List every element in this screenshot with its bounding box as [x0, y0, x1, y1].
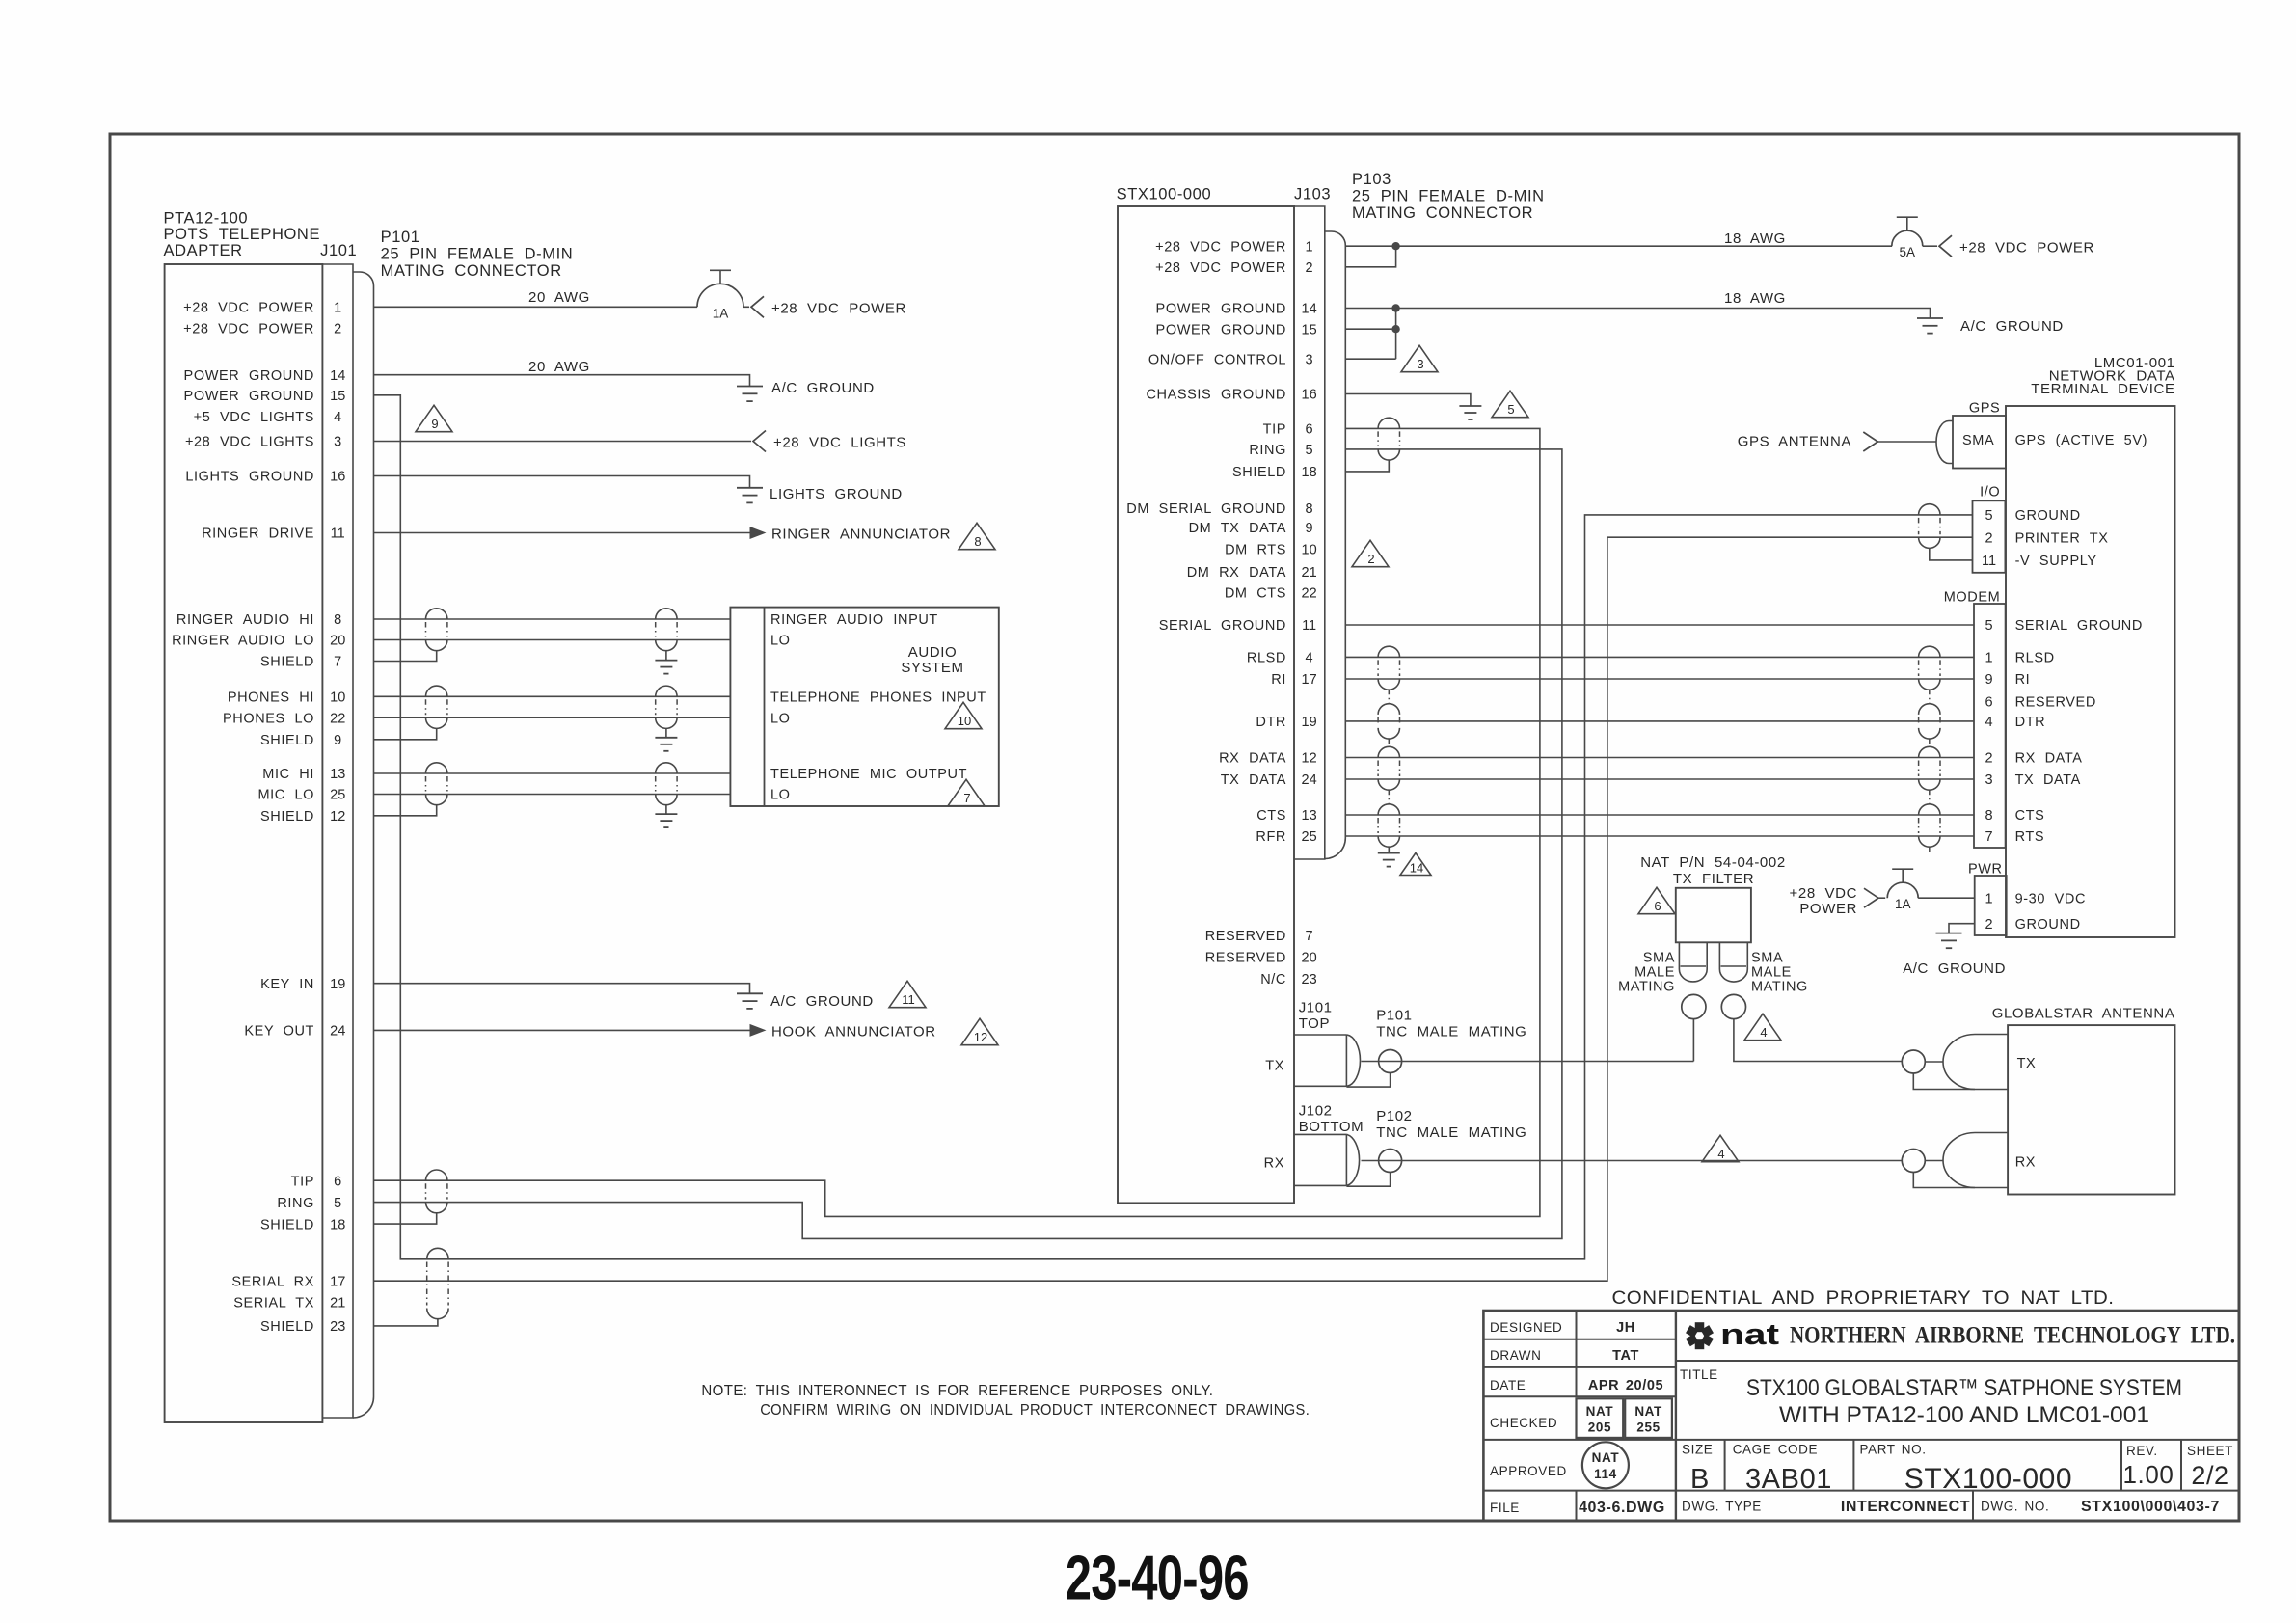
- svg-text:3: 3: [1417, 357, 1423, 371]
- flag note 7: [948, 779, 985, 805]
- wire J103-1 +28VDC: [1345, 245, 1892, 247]
- svg-text:MALE: MALE: [1751, 965, 1792, 981]
- flag note 3: [1401, 345, 1438, 371]
- svg-text:18 AWG: 18 AWG: [1724, 290, 1786, 307]
- svg-text:GPS: GPS: [1969, 401, 2000, 417]
- STX100-000 device box: [1118, 206, 1294, 1203]
- svg-text:7: 7: [963, 791, 970, 805]
- svg-text:SHIELD: SHIELD: [260, 809, 314, 825]
- shield oval (serial pair): [427, 1248, 448, 1258]
- svg-text:17: 17: [330, 1274, 345, 1289]
- svg-text:11: 11: [1982, 554, 1996, 569]
- svg-text:23-40-96: 23-40-96: [1066, 1543, 1249, 1613]
- svg-text:SHIELD: SHIELD: [1232, 465, 1286, 480]
- svg-text:+28 VDC LIGHTS: +28 VDC LIGHTS: [773, 435, 906, 451]
- svg-text:DM CTS: DM CTS: [1225, 586, 1286, 602]
- wire net TIP (J101-6 to J103-6): [374, 428, 1540, 1216]
- flag note 6: [1638, 887, 1675, 913]
- svg-text:5: 5: [1507, 402, 1514, 417]
- circuit breaker 1A (PWR): [1887, 882, 1918, 898]
- mating connector P101 backshell: [353, 272, 374, 1418]
- svg-text:13: 13: [330, 767, 345, 782]
- svg-text:STX100-000: STX100-000: [1117, 186, 1212, 203]
- svg-text:22: 22: [330, 711, 345, 726]
- wire J103-16 chassis ground: [1345, 394, 1471, 407]
- flag note 4 (upper): [1744, 1014, 1781, 1040]
- svg-text:10: 10: [1302, 543, 1317, 558]
- svg-text:2: 2: [334, 322, 341, 338]
- junction dot pin1: [1391, 242, 1399, 250]
- svg-text:LO: LO: [770, 634, 791, 649]
- svg-text:CTS: CTS: [2015, 808, 2045, 824]
- svg-text:POTS TELEPHONE: POTS TELEPHONE: [164, 226, 321, 243]
- svg-text:MODEM: MODEM: [1944, 590, 2001, 606]
- svg-text:RFR: RFR: [1256, 829, 1286, 845]
- TNC circle antenna TX: [1902, 1050, 1925, 1073]
- svg-text:POWER GROUND: POWER GROUND: [184, 368, 314, 384]
- svg-text:11: 11: [1302, 618, 1316, 634]
- svg-text:GPS ANTENNA: GPS ANTENNA: [1738, 434, 1851, 450]
- svg-text:11: 11: [902, 992, 915, 1007]
- svg-text:4: 4: [1306, 651, 1313, 666]
- wire net RING (J101-5 to J103-5): [374, 449, 1562, 1239]
- svg-text:10: 10: [330, 690, 345, 706]
- svg-text:4: 4: [1760, 1025, 1767, 1040]
- svg-text:RINGER AUDIO INPUT: RINGER AUDIO INPUT: [770, 612, 938, 628]
- svg-text:CHECKED: CHECKED: [1490, 1416, 1557, 1430]
- svg-text:5: 5: [334, 1196, 341, 1211]
- wire J101-11 ringer drive: [374, 532, 750, 534]
- svg-text:9: 9: [431, 417, 438, 431]
- shield pair oval (mic, audio side): [656, 763, 677, 773]
- shield drain to ground (mic): [665, 805, 667, 814]
- AUDIO SYSTEM box: [730, 608, 998, 806]
- svg-text:4: 4: [1985, 715, 1992, 730]
- supply chevron +28 VDC POWER (right): [1939, 235, 1952, 257]
- svg-text:BOTTOM: BOTTOM: [1299, 1119, 1364, 1135]
- TX filter left SMA leg: [1678, 942, 1680, 969]
- svg-text:MATING: MATING: [1751, 980, 1808, 995]
- wire J103-24 TX data to modem 3: [1345, 778, 1974, 780]
- svg-text:TELEPHONE PHONES INPUT: TELEPHONE PHONES INPUT: [770, 690, 986, 706]
- wire J101-23 shield stub: [374, 1319, 438, 1326]
- wire J103-4 RLSD to modem 1: [1345, 656, 1974, 658]
- svg-text:DATE: DATE: [1490, 1378, 1526, 1393]
- shield drain to ground (ringer): [665, 651, 667, 661]
- svg-text:PHONES HI: PHONES HI: [228, 690, 314, 706]
- mating connector P103 backshell: [1325, 231, 1346, 859]
- svg-text:GPS (ACTIVE 5V): GPS (ACTIVE 5V): [2015, 433, 2147, 448]
- wire J101-13 mic hi: [374, 772, 731, 774]
- svg-text:A/C GROUND: A/C GROUND: [1903, 960, 2006, 977]
- svg-text:9: 9: [1985, 672, 1992, 688]
- shield drain to -V supply pin: [1930, 548, 1973, 560]
- wire J101-8 ringer audio hi: [374, 618, 731, 620]
- wire J101-15 power ground to I/O ground net: [374, 395, 1973, 1259]
- svg-text:DM RX DATA: DM RX DATA: [1187, 565, 1286, 581]
- wire J101-24 key out: [374, 1029, 750, 1031]
- shield oval I/O pair: [1919, 504, 1940, 515]
- TX filter right SMA leg: [1718, 942, 1720, 969]
- svg-text:4: 4: [334, 410, 341, 425]
- wire J103-18 shield stub: [1345, 460, 1390, 472]
- svg-text:AUDIO: AUDIO: [908, 644, 958, 661]
- svg-text:TNC MALE MATING: TNC MALE MATING: [1376, 1124, 1526, 1141]
- svg-text:14: 14: [1410, 860, 1423, 875]
- svg-text:6: 6: [1306, 422, 1313, 438]
- svg-text:24: 24: [330, 1024, 345, 1040]
- wire filter left leg to TX coax: [1692, 1019, 1694, 1062]
- svg-text:1: 1: [1985, 651, 1992, 666]
- svg-text:SHIELD: SHIELD: [260, 1217, 314, 1232]
- svg-text:TX: TX: [2017, 1056, 2037, 1071]
- svg-text:14: 14: [330, 368, 345, 384]
- svg-text:REV.: REV.: [2126, 1444, 2158, 1458]
- TNC circle P102: [1379, 1150, 1402, 1173]
- svg-text:RINGER DRIVE: RINGER DRIVE: [202, 527, 314, 542]
- svg-text:25 PIN FEMALE D-MIN: 25 PIN FEMALE D-MIN: [381, 246, 574, 263]
- svg-text:I/O: I/O: [1980, 485, 2000, 500]
- svg-text:+28 VDC POWER: +28 VDC POWER: [1959, 239, 2094, 256]
- svg-text:RINGER AUDIO LO: RINGER AUDIO LO: [172, 634, 314, 649]
- wire J101-10 phones hi: [374, 695, 731, 697]
- svg-text:14: 14: [1302, 302, 1317, 317]
- wire J103-11 serial ground to modem 5: [1345, 624, 1974, 626]
- svg-text:12: 12: [330, 809, 345, 825]
- svg-text:25: 25: [330, 788, 345, 803]
- svg-text:3: 3: [334, 435, 341, 450]
- ground A/C (J103 power ground): [1917, 317, 1943, 319]
- svg-text:+28 VDC POWER: +28 VDC POWER: [183, 301, 314, 316]
- svg-text:RINGER ANNUNCIATOR: RINGER ANNUNCIATOR: [771, 527, 951, 543]
- svg-text:TELEPHONE MIC OUTPUT: TELEPHONE MIC OUTPUT: [770, 767, 967, 782]
- svg-text:1A: 1A: [713, 306, 729, 320]
- junction dot pin14: [1391, 304, 1399, 311]
- wire J103-2 +28VDC joins pin1: [1345, 246, 1396, 267]
- wire J101-19 key in to ground: [374, 984, 750, 994]
- svg-text:CONFIRM WIRING ON INDIVIDUAL P: CONFIRM WIRING ON INDIVIDUAL PRODUCT INT…: [760, 1402, 1310, 1419]
- svg-text:+28 VDC LIGHTS: +28 VDC LIGHTS: [185, 435, 314, 450]
- svg-text:TAT: TAT: [1612, 1348, 1639, 1364]
- svg-text:JH: JH: [1616, 1320, 1635, 1336]
- svg-text:P103: P103: [1352, 171, 1391, 188]
- svg-text:POWER GROUND: POWER GROUND: [1156, 302, 1286, 317]
- wire J103-25 RFR to modem 7: [1345, 835, 1974, 837]
- SMA male mating circle left: [1682, 994, 1706, 1018]
- svg-text:TX DATA: TX DATA: [2015, 772, 2081, 788]
- svg-text:LIGHTS GROUND: LIGHTS GROUND: [185, 470, 314, 485]
- svg-text:19: 19: [330, 977, 345, 992]
- svg-text:APPROVED: APPROVED: [1490, 1464, 1567, 1478]
- svg-text:MALE: MALE: [1634, 965, 1675, 981]
- svg-text:CAGE CODE: CAGE CODE: [1733, 1443, 1818, 1457]
- svg-text:7: 7: [1985, 829, 1992, 845]
- svg-text:1: 1: [1985, 891, 1992, 906]
- svg-text:20: 20: [330, 634, 345, 649]
- NAT logo: [1695, 1322, 1705, 1332]
- annunciator arrow ringer: [750, 527, 767, 539]
- drawing border frame: [110, 134, 2239, 1521]
- svg-text:24: 24: [1302, 772, 1317, 788]
- wire J103-12 RX data to modem 2: [1345, 757, 1974, 759]
- svg-text:5: 5: [1306, 443, 1313, 458]
- TNC circle antenna RX: [1902, 1150, 1925, 1173]
- ground chassis (J103-16): [1459, 405, 1481, 407]
- svg-text:HOOK ANNUNCIATOR: HOOK ANNUNCIATOR: [771, 1024, 936, 1041]
- svg-text:CONFIDENTIAL AND PROPRIETARY T: CONFIDENTIAL AND PROPRIETARY TO NAT LTD.: [1612, 1287, 2115, 1309]
- svg-text:NAT: NAT: [1592, 1450, 1620, 1465]
- wire J103-13 CTS to modem 8: [1345, 814, 1974, 816]
- svg-text:2: 2: [1985, 751, 1992, 767]
- svg-text:nat: nat: [1720, 1317, 1779, 1351]
- svg-text:TX DATA: TX DATA: [1221, 772, 1286, 788]
- svg-text:PRINTER TX: PRINTER TX: [2015, 530, 2109, 546]
- svg-text:8: 8: [1306, 501, 1313, 517]
- svg-text:PTA12-100: PTA12-100: [164, 209, 249, 227]
- svg-text:25 PIN FEMALE D-MIN: 25 PIN FEMALE D-MIN: [1352, 188, 1545, 205]
- svg-text:TOP: TOP: [1299, 1015, 1330, 1032]
- svg-text:POWER GROUND: POWER GROUND: [1156, 322, 1286, 338]
- flag note 11: [889, 981, 926, 1007]
- svg-text:17: 17: [1302, 672, 1317, 688]
- svg-text:12: 12: [1302, 751, 1317, 767]
- svg-text:FILE: FILE: [1490, 1501, 1520, 1515]
- svg-text:GLOBALSTAR ANTENNA: GLOBALSTAR ANTENNA: [1992, 1006, 2175, 1022]
- flag note 9: [416, 405, 452, 431]
- svg-text:3: 3: [1306, 352, 1313, 367]
- svg-text:+28 VDC POWER: +28 VDC POWER: [183, 322, 314, 338]
- svg-text:6: 6: [1654, 899, 1661, 913]
- svg-text:SYSTEM: SYSTEM: [901, 660, 963, 676]
- svg-text:CTS: CTS: [1256, 808, 1286, 824]
- svg-text:MIC HI: MIC HI: [262, 767, 314, 782]
- svg-text:DM SERIAL GROUND: DM SERIAL GROUND: [1126, 501, 1286, 517]
- shield pair oval (ringer, audio side): [656, 609, 677, 619]
- svg-text:RX DATA: RX DATA: [1219, 751, 1286, 767]
- wire J101-18 shield stub: [374, 1213, 437, 1224]
- svg-text:13: 13: [1302, 808, 1317, 824]
- svg-text:DWG. NO.: DWG. NO.: [1981, 1500, 2049, 1514]
- svg-text:8: 8: [1985, 808, 1992, 824]
- svg-text:STX100 GLOBALSTAR™ SATPHONE SY: STX100 GLOBALSTAR™ SATPHONE SYSTEM: [1746, 1375, 2182, 1401]
- svg-text:DRAWN: DRAWN: [1490, 1348, 1542, 1363]
- svg-text:25: 25: [1302, 829, 1317, 845]
- svg-text:+5 VDC LIGHTS: +5 VDC LIGHTS: [194, 410, 314, 425]
- shield pair oval (tip/ring J101 side): [426, 1170, 447, 1180]
- svg-text:SERIAL GROUND: SERIAL GROUND: [1159, 618, 1286, 634]
- svg-text:1A: 1A: [1895, 897, 1911, 911]
- svg-text:LO: LO: [770, 788, 791, 803]
- wire J101-9 shield stub: [374, 728, 437, 739]
- stamp NAT 205: [1577, 1398, 1624, 1438]
- svg-text:ON/OFF CONTROL: ON/OFF CONTROL: [1148, 352, 1286, 367]
- wire J101-7 shield stub: [374, 651, 437, 662]
- shield drain ground (serial cable): [1388, 847, 1390, 852]
- svg-text:RX DATA: RX DATA: [2015, 751, 2083, 767]
- svg-text:RX: RX: [1264, 1156, 1284, 1172]
- globalstar antenna box: [2008, 1025, 2174, 1194]
- coax TX to filter left leg: [1362, 1061, 1694, 1063]
- svg-text:PART NO.: PART NO.: [1860, 1443, 1927, 1457]
- svg-text:RING: RING: [1249, 443, 1286, 458]
- svg-text:114: 114: [1594, 1467, 1617, 1481]
- flag note 12: [961, 1018, 998, 1044]
- svg-text:RI: RI: [1271, 672, 1286, 688]
- coax RX to globalstar: [1362, 1160, 1903, 1162]
- svg-text:205: 205: [1588, 1420, 1611, 1435]
- flag note 2: [1352, 540, 1389, 566]
- wire PWR-2 ground: [1949, 924, 1975, 933]
- ground A/C (power ground): [737, 386, 763, 388]
- svg-text:2: 2: [1985, 530, 1992, 546]
- svg-text:SHIELD: SHIELD: [260, 655, 314, 670]
- svg-text:7: 7: [334, 655, 341, 670]
- svg-text:TERMINAL DEVICE: TERMINAL DEVICE: [2031, 381, 2174, 397]
- wire J101-14 power ground: [374, 375, 750, 387]
- wire net SERIAL RX (J101-17 to I/O printer TX): [374, 537, 1973, 1281]
- svg-text:8: 8: [334, 612, 341, 628]
- svg-text:NAT P/N 54-04-002: NAT P/N 54-04-002: [1640, 854, 1786, 871]
- title block internal lines: [1675, 1311, 1677, 1521]
- svg-text:ADAPTER: ADAPTER: [164, 242, 243, 259]
- svg-text:P101: P101: [381, 229, 420, 246]
- svg-text:22: 22: [1302, 586, 1317, 602]
- svg-text:2: 2: [1306, 260, 1313, 276]
- svg-text:RESERVED: RESERVED: [1205, 951, 1286, 966]
- shield ovals chain J103 serial side: [1378, 646, 1399, 657]
- svg-text:15: 15: [1302, 322, 1317, 338]
- shield drain to ground (phones): [665, 728, 667, 737]
- svg-text:SMA: SMA: [1643, 951, 1675, 966]
- svg-text:RI: RI: [2015, 672, 2031, 688]
- svg-text:16: 16: [1302, 388, 1317, 403]
- svg-text:7: 7: [1306, 929, 1313, 944]
- svg-text:DM RTS: DM RTS: [1225, 543, 1286, 558]
- flag note 8: [959, 523, 995, 549]
- wire J101-1 +28VDC power feed: [374, 306, 698, 308]
- svg-text:DESIGNED: DESIGNED: [1490, 1320, 1562, 1335]
- svg-text:DTR: DTR: [2015, 715, 2046, 730]
- svg-text:RESERVED: RESERVED: [2015, 695, 2096, 711]
- svg-text:18 AWG: 18 AWG: [1724, 230, 1786, 247]
- wire J103-19 DTR to modem 4: [1345, 720, 1974, 722]
- PTA12-100 device box: [165, 264, 323, 1422]
- circuit breaker 1A: [697, 284, 743, 307]
- svg-text:NAT: NAT: [1586, 1404, 1614, 1419]
- svg-text:NORTHERN AIRBORNE TECHNOLOGY L: NORTHERN AIRBORNE TECHNOLOGY LTD.: [1790, 1323, 2235, 1349]
- coax TX last segment: [1925, 1061, 1943, 1063]
- svg-text:19: 19: [1302, 715, 1317, 730]
- junction link 14-15-3: [1395, 309, 1397, 360]
- svg-text:2: 2: [1985, 917, 1992, 933]
- svg-text:B: B: [1690, 1464, 1710, 1495]
- svg-text:TIP: TIP: [1263, 422, 1286, 438]
- wire J101-22 phones lo: [374, 717, 731, 718]
- wire J101-20 ringer audio lo: [374, 639, 731, 641]
- SMA male mating circle right: [1721, 994, 1745, 1018]
- svg-text:LIGHTS GROUND: LIGHTS GROUND: [770, 486, 903, 502]
- svg-text:RINGER AUDIO HI: RINGER AUDIO HI: [176, 612, 314, 628]
- svg-text:DTR: DTR: [1256, 715, 1286, 730]
- svg-text:SHEET: SHEET: [2187, 1444, 2233, 1458]
- svg-text:WITH PTA12-100 AND LMC01-001: WITH PTA12-100 AND LMC01-001: [1779, 1402, 2149, 1428]
- ground A/C (PWR): [1936, 933, 1962, 934]
- svg-text:J103: J103: [1294, 186, 1331, 203]
- svg-text:20: 20: [1302, 951, 1317, 966]
- stamp NAT 255: [1625, 1398, 1672, 1438]
- svg-text:SHIELD: SHIELD: [260, 733, 314, 748]
- svg-text:RLSD: RLSD: [1247, 651, 1286, 666]
- svg-text:J102: J102: [1299, 1102, 1333, 1119]
- svg-text:SERIAL GROUND: SERIAL GROUND: [2015, 618, 2143, 634]
- svg-text:MATING CONNECTOR: MATING CONNECTOR: [381, 262, 562, 280]
- shield pair oval (phones, connector side): [426, 686, 447, 696]
- svg-text:21: 21: [330, 1296, 345, 1312]
- svg-text:TNC MALE MATING: TNC MALE MATING: [1376, 1024, 1526, 1041]
- svg-text:SMA: SMA: [1751, 951, 1783, 966]
- svg-text:RTS: RTS: [2015, 829, 2045, 845]
- flag note 4 (lower): [1702, 1135, 1739, 1161]
- svg-text:J101: J101: [1299, 999, 1333, 1015]
- wire J101-12 shield stub: [374, 805, 437, 816]
- svg-text:RESERVED: RESERVED: [1205, 929, 1286, 944]
- svg-text:1: 1: [334, 301, 341, 316]
- svg-text:4: 4: [1717, 1147, 1724, 1161]
- shield pair oval (mic, connector side): [426, 763, 447, 773]
- svg-text:23: 23: [330, 1319, 345, 1335]
- svg-text:23: 23: [1302, 972, 1317, 987]
- annunciator arrow hook: [750, 1024, 767, 1037]
- svg-text:+28 VDC POWER: +28 VDC POWER: [1155, 260, 1286, 276]
- svg-text:9: 9: [334, 733, 341, 748]
- title block frame: [1483, 1311, 2239, 1521]
- svg-text:SMA: SMA: [1962, 433, 1994, 448]
- svg-text:J101: J101: [320, 242, 357, 259]
- svg-text:16: 16: [330, 470, 345, 485]
- circuit breaker 5A: [1892, 230, 1923, 246]
- svg-text:MIC LO: MIC LO: [257, 788, 314, 803]
- svg-text:NOTE: THIS INTERONNECT IS FOR: NOTE: THIS INTERONNECT IS FOR REFERENCE …: [701, 1383, 1213, 1399]
- wire J101-3 +28 VDC lights: [374, 441, 752, 443]
- svg-text:2: 2: [1367, 552, 1374, 566]
- svg-text:GROUND: GROUND: [2015, 917, 2081, 933]
- wire J101-25 mic lo: [374, 794, 731, 796]
- stamp NAT 114 circle: [1582, 1442, 1629, 1488]
- svg-text:N/C: N/C: [1260, 972, 1286, 987]
- svg-text:POWER GROUND: POWER GROUND: [184, 389, 314, 404]
- wire J101-16 lights ground: [374, 476, 750, 488]
- svg-text:9-30 VDC: 9-30 VDC: [2015, 891, 2086, 906]
- svg-text:POWER: POWER: [1799, 901, 1857, 917]
- svg-text:18: 18: [1302, 465, 1317, 480]
- svg-text:-V SUPPLY: -V SUPPLY: [2015, 554, 2097, 569]
- svg-text:TX FILTER: TX FILTER: [1673, 871, 1754, 887]
- wire J103-17 RI to modem 9: [1345, 678, 1974, 680]
- svg-text:6: 6: [1985, 695, 1992, 711]
- svg-text:A/C GROUND: A/C GROUND: [771, 380, 875, 396]
- svg-text:MATING CONNECTOR: MATING CONNECTOR: [1352, 204, 1533, 222]
- svg-text:TITLE: TITLE: [1680, 1367, 1718, 1382]
- svg-text:PWR: PWR: [1968, 862, 2003, 878]
- svg-text:CHASSIS GROUND: CHASSIS GROUND: [1146, 388, 1286, 403]
- flag note 14: [1400, 853, 1431, 876]
- svg-text:TIP: TIP: [291, 1174, 314, 1189]
- svg-text:DWG. TYPE: DWG. TYPE: [1682, 1500, 1762, 1514]
- svg-text:A/C GROUND: A/C GROUND: [1960, 318, 2064, 335]
- wire filter right leg to antenna TX: [1734, 1019, 1902, 1062]
- svg-text:INTERCONNECT: INTERCONNECT: [1841, 1499, 1970, 1515]
- svg-text:8: 8: [974, 534, 981, 549]
